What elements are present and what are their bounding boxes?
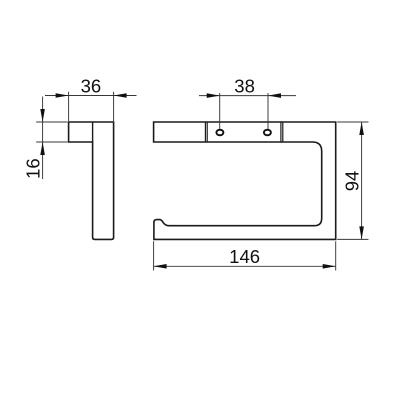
svg-text:146: 146 <box>229 246 260 267</box>
svg-text:38: 38 <box>234 76 255 97</box>
svg-text:94: 94 <box>342 171 363 192</box>
screw hole left <box>216 130 223 136</box>
dim 38 arrow right (pointing left) <box>268 93 281 98</box>
dim 146 arrow left (pointing left) <box>154 264 167 269</box>
side view outline (L-profile, left view) <box>69 122 114 239</box>
front view outline (C-shape with lip, right view) <box>154 122 336 239</box>
dim 36 arrow left (pointing right) <box>56 93 69 98</box>
dim 16 extension lines <box>36 122 67 142</box>
dim 16 dimension line <box>42 97 44 180</box>
svg-text:16: 16 <box>22 158 43 179</box>
dim 16 arrow top (pointing down) <box>40 109 45 122</box>
dim 36 arrow right (pointing left) <box>114 93 127 98</box>
dim 94 arrow bottom (pointing down) <box>359 226 364 239</box>
dim 16 arrow bottom (pointing up) <box>40 142 45 155</box>
screw hole right <box>264 130 271 136</box>
dim 146 extension lines <box>154 241 336 270</box>
dim 38 extension lines <box>220 93 268 129</box>
mounting plate right seam (double line) <box>281 122 283 142</box>
dim 94 extension lines <box>337 122 368 239</box>
side view plate/bar divider edge <box>92 122 94 142</box>
dim 38 dimension line <box>199 95 296 97</box>
dim 36 extension lines <box>69 92 114 121</box>
dim 94 arrow top (pointing up) <box>359 122 364 135</box>
dim 146 arrow right (pointing right) <box>323 264 336 269</box>
svg-text:36: 36 <box>81 76 102 97</box>
dim 146 dimension line <box>154 265 336 267</box>
dim 94 dimension line <box>361 122 363 239</box>
dim 38 arrow left (pointing right) <box>207 93 220 98</box>
mounting plate left seam (double line) <box>205 122 207 142</box>
dim 36 dimension line <box>45 95 137 97</box>
